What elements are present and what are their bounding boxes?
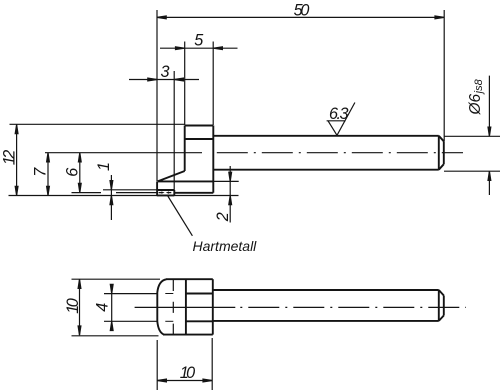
head lower-left vertical xyxy=(156,181,158,195)
extension line y=181.4 right xyxy=(213,180,238,182)
extension line x=213.2 xyxy=(212,42,214,126)
bottom view: head outline xyxy=(157,279,213,334)
svg-text:7: 7 xyxy=(32,167,50,177)
head internal edge upper xyxy=(185,138,214,140)
carbide hidden edges xyxy=(165,294,173,322)
dimension 50 xyxy=(157,16,444,18)
head round nose xyxy=(157,279,166,334)
svg-text:2: 2 xyxy=(214,212,232,222)
carbide braze joint marks xyxy=(159,192,172,194)
svg-text:Ø6js8: Ø6js8 xyxy=(467,78,485,115)
extension line y=189.8 xyxy=(103,189,157,191)
svg-text:6: 6 xyxy=(63,168,81,177)
dimension 4 xyxy=(111,285,113,330)
dimension 1 xyxy=(110,175,112,220)
head top edge xyxy=(185,125,214,127)
shaft bottom edge xyxy=(213,169,438,171)
shaft end face xyxy=(443,141,445,164)
head top edge xyxy=(166,278,213,280)
dimension 3 xyxy=(129,79,199,81)
extension line x=444.2 xyxy=(443,10,445,141)
extension line y=192.6 xyxy=(72,192,157,194)
shaft chamfer start edge xyxy=(438,136,440,170)
svg-text:12: 12 xyxy=(1,150,19,165)
head face edge xyxy=(185,279,187,334)
dimension 10 bottom xyxy=(157,380,212,382)
extension line y=293.6 xyxy=(104,293,158,295)
svg-text:5: 5 xyxy=(194,32,204,50)
extension line x=212.2 xyxy=(211,338,213,390)
bottom view: shaft outline xyxy=(213,290,444,321)
head internal edge lower xyxy=(158,180,214,182)
extension line y=335.6 xyxy=(72,335,159,337)
surface finish symbol 6.3 xyxy=(327,103,355,136)
extension line x=157 xyxy=(156,10,158,181)
extension line y=279.2 xyxy=(72,278,161,280)
carbide insert outline xyxy=(157,190,175,195)
dimension 12 xyxy=(16,125,18,196)
dimension 10 left xyxy=(79,279,81,335)
head left edge xyxy=(184,126,186,172)
head bottom edge xyxy=(163,334,213,336)
center mark vertical xyxy=(172,280,174,335)
head bottom edge xyxy=(174,192,213,194)
svg-text:1: 1 xyxy=(95,162,113,171)
center line bottom view xyxy=(135,306,236,308)
dimension 6 xyxy=(79,153,81,193)
svg-text:50: 50 xyxy=(294,1,310,19)
extension line x=184.7 xyxy=(184,42,186,126)
shaft end chamfers xyxy=(439,136,444,170)
dimension 5 xyxy=(160,47,238,49)
dimension dia6 js8 xyxy=(488,76,490,195)
dimension 2 xyxy=(229,166,231,223)
svg-text:4: 4 xyxy=(93,303,111,312)
extension line x=157.2 xyxy=(156,340,158,390)
svg-text:6.3: 6.3 xyxy=(329,105,349,123)
svg-text:3: 3 xyxy=(160,63,169,81)
head right edge xyxy=(212,279,214,334)
svg-text:Hartmetall: Hartmetall xyxy=(193,238,258,254)
leader line Hartmetall xyxy=(168,196,193,236)
svg-text:10: 10 xyxy=(180,364,195,382)
extension line x=174.2 xyxy=(173,71,175,190)
shaft outline xyxy=(213,136,443,170)
extension line y=136.3 xyxy=(444,135,500,137)
dimension 7 xyxy=(47,153,49,196)
head relief diagonal xyxy=(158,171,185,181)
block internal edges xyxy=(186,294,213,322)
extension line y=125.2 xyxy=(10,123,185,125)
head right edge xyxy=(212,126,214,193)
extension line y=195.5 xyxy=(9,195,239,197)
extension line y=321.3 xyxy=(104,320,158,322)
extension line y=152.7 axis xyxy=(45,152,202,154)
main view: head outline xyxy=(157,126,213,196)
shaft top edge xyxy=(213,135,438,137)
center line main view xyxy=(217,152,463,154)
extension line y=171.2 xyxy=(444,170,500,172)
